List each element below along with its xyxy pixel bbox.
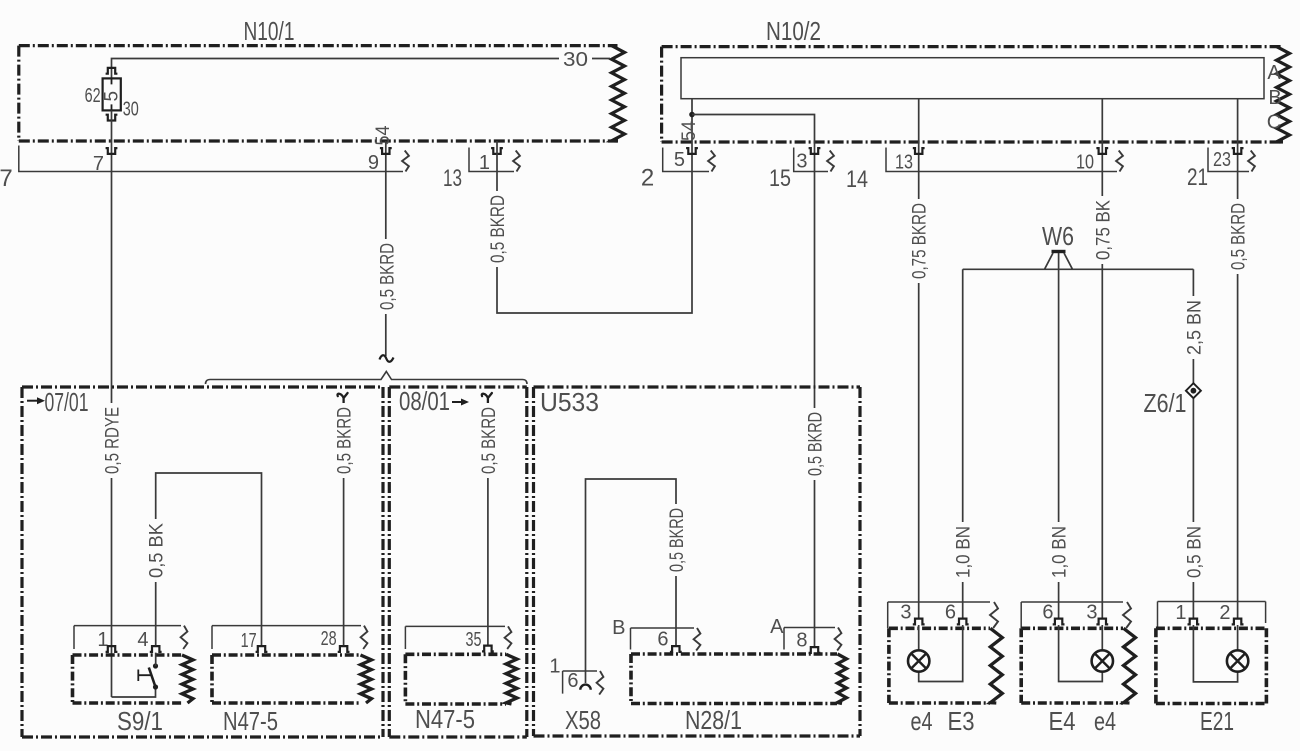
wire pin1 N10/1 to pin5 N10/2 [497, 99, 692, 313]
lamp unit box E4 [1021, 628, 1123, 703]
svg-text:A: A [1267, 62, 1281, 84]
wire terminal 30 from fuse to torn edge [112, 59, 611, 79]
svg-text:E4: E4 [1049, 706, 1076, 736]
svg-text:6: 6 [1042, 602, 1053, 624]
pin 4 of S9/1 [150, 646, 162, 652]
svg-text:6: 6 [945, 602, 956, 624]
svg-text:23: 23 [1213, 149, 1231, 171]
fuse F 5A [103, 78, 121, 110]
pin 13 wire down to E3 [918, 99, 920, 618]
svg-text:62: 62 [85, 85, 101, 107]
pin 17 of N47-5 [256, 646, 268, 652]
connector bracket B of N28/1 [631, 628, 695, 650]
svg-text:28: 28 [321, 628, 337, 650]
svg-text:14: 14 [846, 166, 868, 193]
splice fork 07/01 [337, 393, 347, 406]
wire W6 to E21 pin1 (2,5 BN / 0,5 BN) [1192, 269, 1194, 618]
svg-text:1: 1 [479, 152, 490, 174]
svg-text:7: 7 [0, 165, 13, 192]
svg-text:0,5 BKRD: 0,5 BKRD [1229, 203, 1250, 270]
wire label 0,5 RDYE [102, 403, 121, 478]
splice fork 08/01 [482, 393, 492, 406]
wire label 0,5 BKRD pin 9 [377, 239, 396, 314]
connector sleeve Z6/1 [1186, 383, 1201, 398]
connector bracket 14 of N10/2 (pins 13,10) [886, 148, 1117, 172]
svg-text:8: 8 [796, 630, 807, 652]
fuse bottom pin [106, 115, 118, 121]
svg-text:7: 7 [93, 153, 104, 175]
svg-text:4: 4 [137, 629, 148, 651]
svg-text:0,75 BK: 0,75 BK [1093, 200, 1114, 260]
svg-text:3: 3 [796, 151, 807, 173]
control unit box N10/1 [19, 46, 618, 141]
wire W6 to E4 pin6 (1,0 BN) [1058, 253, 1060, 618]
control module box N28/1 [631, 654, 837, 704]
ground bus wire [963, 268, 1194, 270]
wire label 0,5 BKRD pin 3 [805, 408, 824, 480]
pin 10 wire down to E4 [1101, 99, 1103, 618]
svg-text:30: 30 [563, 49, 588, 71]
svg-text:0,5 BKRD: 0,5 BKRD [377, 243, 398, 310]
svg-text:15: 15 [769, 165, 791, 192]
svg-text:35: 35 [466, 629, 482, 651]
control unit box N10/2 [662, 47, 1283, 142]
torn edge N10/2 [1277, 47, 1290, 142]
pin 1 of E21 [1188, 619, 1200, 625]
pin 28 of N47-5 [338, 646, 350, 652]
connector bracket over N47-5 (08/01) [405, 626, 505, 649]
wire fork to pin 35 (0,5 BKRD) [487, 405, 489, 645]
connector bracket 13 of N10/1 (pin 1) [469, 148, 514, 172]
control module box N47-5 [212, 655, 361, 703]
connector bracket A of N28/1 [784, 628, 835, 650]
svg-text:X58: X58 [565, 705, 601, 735]
pin 35 of N47-5 [482, 646, 494, 652]
variant box 08/01 [389, 387, 527, 737]
svg-text:W6: W6 [1042, 221, 1074, 251]
junction dot terminal 54 branch [689, 112, 695, 118]
svg-text:30: 30 [123, 99, 139, 121]
connector bracket over E3 [888, 602, 990, 628]
svg-text:1,0 BN: 1,0 BN [1050, 526, 1071, 578]
svg-text:13: 13 [895, 152, 913, 174]
bulb E21 [1227, 650, 1248, 671]
svg-text:0,5 BKRD: 0,5 BKRD [806, 412, 827, 476]
wire fork to pin 28 (0,5 BKRD) [343, 405, 345, 645]
internal branch wire to pin 3 [692, 115, 815, 647]
svg-text:6: 6 [657, 629, 668, 651]
svg-text:0,5 RDYE: 0,5 RDYE [103, 407, 124, 474]
connector bracket X58 [563, 671, 597, 694]
svg-text:1,0 BN: 1,0 BN [954, 526, 975, 578]
connector bracket over N47-5 [212, 626, 361, 649]
svg-text:0,75 BKRD: 0,75 BKRD [910, 203, 931, 279]
lamp unit box E3 [889, 628, 990, 703]
pin 3 of E3 [913, 619, 925, 625]
connector bracket over S9/1 [74, 626, 181, 649]
connector bracket 15 of N10/2 (pin 3) [794, 148, 828, 172]
svg-text:S9/1: S9/1 [117, 706, 163, 736]
svg-text:6: 6 [567, 670, 578, 692]
pin 3 [809, 148, 821, 154]
pin 8 of N28/1 [809, 647, 821, 653]
svg-text:07/01: 07/01 [45, 387, 89, 417]
svg-text:3: 3 [900, 602, 911, 624]
wire W6 to E3 pin6 (1,0 BN) [962, 269, 964, 618]
connector bracket 2 of N10/2 (pin 5) [663, 148, 709, 172]
svg-text:9: 9 [368, 152, 379, 174]
svg-text:17: 17 [241, 630, 257, 652]
pin 10 [1096, 148, 1108, 154]
svg-text:N10/1: N10/1 [244, 16, 295, 46]
svg-text:E3: E3 [948, 706, 975, 736]
pin 2 of E21 [1232, 619, 1244, 625]
alternatives brace [206, 372, 528, 385]
connector bracket 7 of N10/1 (pins 7,9) [19, 146, 403, 172]
connector bracket 21 of N10/2 (pin 23) [1208, 148, 1249, 172]
pin 9 wire to splice [385, 141, 387, 356]
svg-text:e4: e4 [911, 706, 933, 736]
pin 23 [1232, 148, 1244, 154]
svg-text:0,5 BN: 0,5 BN [1184, 526, 1205, 578]
svg-text:E21: E21 [1200, 706, 1234, 736]
svg-text:0,5 BKRD: 0,5 BKRD [667, 508, 688, 572]
switch box S9/1 [73, 655, 183, 703]
arrow 07/01 [27, 400, 38, 402]
connector bracket over E4 [1021, 602, 1123, 628]
svg-text:5: 5 [102, 91, 123, 102]
svg-text:1: 1 [1175, 602, 1186, 624]
connector bracket over E21 [1158, 602, 1266, 629]
svg-text:Z6/1: Z6/1 [1144, 388, 1187, 418]
switch contacts [153, 663, 158, 668]
svg-text:13: 13 [443, 165, 462, 192]
wire from fuse down to S9/1 pin 1 (0,5 RDYE) [111, 110, 113, 697]
svg-text:B: B [612, 617, 625, 639]
svg-text:A: A [770, 616, 784, 638]
switch blade [149, 668, 156, 688]
control module box N47-5 (08/01) [405, 654, 506, 704]
pin 3 of E4 [1096, 619, 1108, 625]
variant box U533 [534, 387, 861, 736]
svg-text:1: 1 [549, 656, 560, 678]
arrow 08/01 [452, 401, 462, 403]
svg-text:N28/1: N28/1 [685, 705, 742, 735]
lamp unit box E21 [1156, 628, 1267, 703]
pin 6 of E3 [957, 619, 969, 625]
X58 wire to N28/1 pin 6 [586, 479, 677, 683]
X58 socket [580, 685, 590, 690]
S9/1 internal wire [112, 687, 156, 697]
pin 6 of E4 [1053, 619, 1065, 625]
bulb E3 [908, 650, 929, 671]
variant box 07/01 [22, 387, 383, 737]
pin 13 [913, 148, 925, 154]
inner module rectangle of N10/2 [681, 58, 1264, 99]
crimp tilde on pin 9 wire [380, 355, 394, 362]
svg-text:10: 10 [1076, 152, 1094, 174]
pin 1 of S9/1 [106, 646, 118, 652]
svg-text:54: 54 [373, 125, 394, 145]
E3 internal wires [919, 625, 963, 682]
switch actuator [138, 670, 151, 682]
svg-text:2: 2 [1219, 602, 1230, 624]
label 30 on wire [559, 49, 592, 69]
svg-text:N10/2: N10/2 [766, 16, 821, 46]
fuse top pin [106, 68, 118, 74]
pin 5 [686, 148, 698, 154]
svg-text:2,5 BN: 2,5 BN [1184, 300, 1205, 355]
svg-text:C: C [1267, 112, 1281, 134]
svg-text:0,5 BK: 0,5 BK [147, 523, 168, 578]
E4 internal wires [1059, 625, 1103, 682]
svg-text:54: 54 [679, 121, 700, 141]
svg-text:N47-5: N47-5 [415, 704, 475, 734]
svg-text:0,5 BKRD: 0,5 BKRD [335, 407, 356, 474]
pin 1 [491, 148, 503, 154]
svg-text:21: 21 [1187, 164, 1208, 191]
svg-text:08/01: 08/01 [399, 386, 450, 416]
svg-text:0,5 BKRD: 0,5 BKRD [488, 195, 509, 263]
E21 internal wires [1193, 625, 1237, 682]
wire label 0,5 BKRD pin 1 [488, 191, 507, 267]
pin 7 [106, 148, 118, 154]
pin 23 wire down to E21 [1237, 99, 1239, 618]
svg-text:3: 3 [1086, 602, 1097, 624]
svg-text:e4: e4 [1094, 706, 1116, 736]
svg-text:0,5 BKRD: 0,5 BKRD [479, 407, 500, 474]
svg-text:U533: U533 [540, 387, 599, 417]
wire pin4 S9/1 to pin17 N47-5 (0,5 BK) [156, 473, 262, 666]
svg-text:N47-5: N47-5 [223, 706, 278, 736]
svg-text:2: 2 [641, 165, 654, 192]
torn edge N10/1 [612, 46, 625, 141]
pin 9 [380, 148, 392, 154]
bulb E4 [1092, 650, 1113, 671]
pin 6 of N28/1 [670, 646, 682, 652]
svg-text:B: B [1268, 87, 1281, 109]
svg-text:5: 5 [674, 149, 685, 171]
